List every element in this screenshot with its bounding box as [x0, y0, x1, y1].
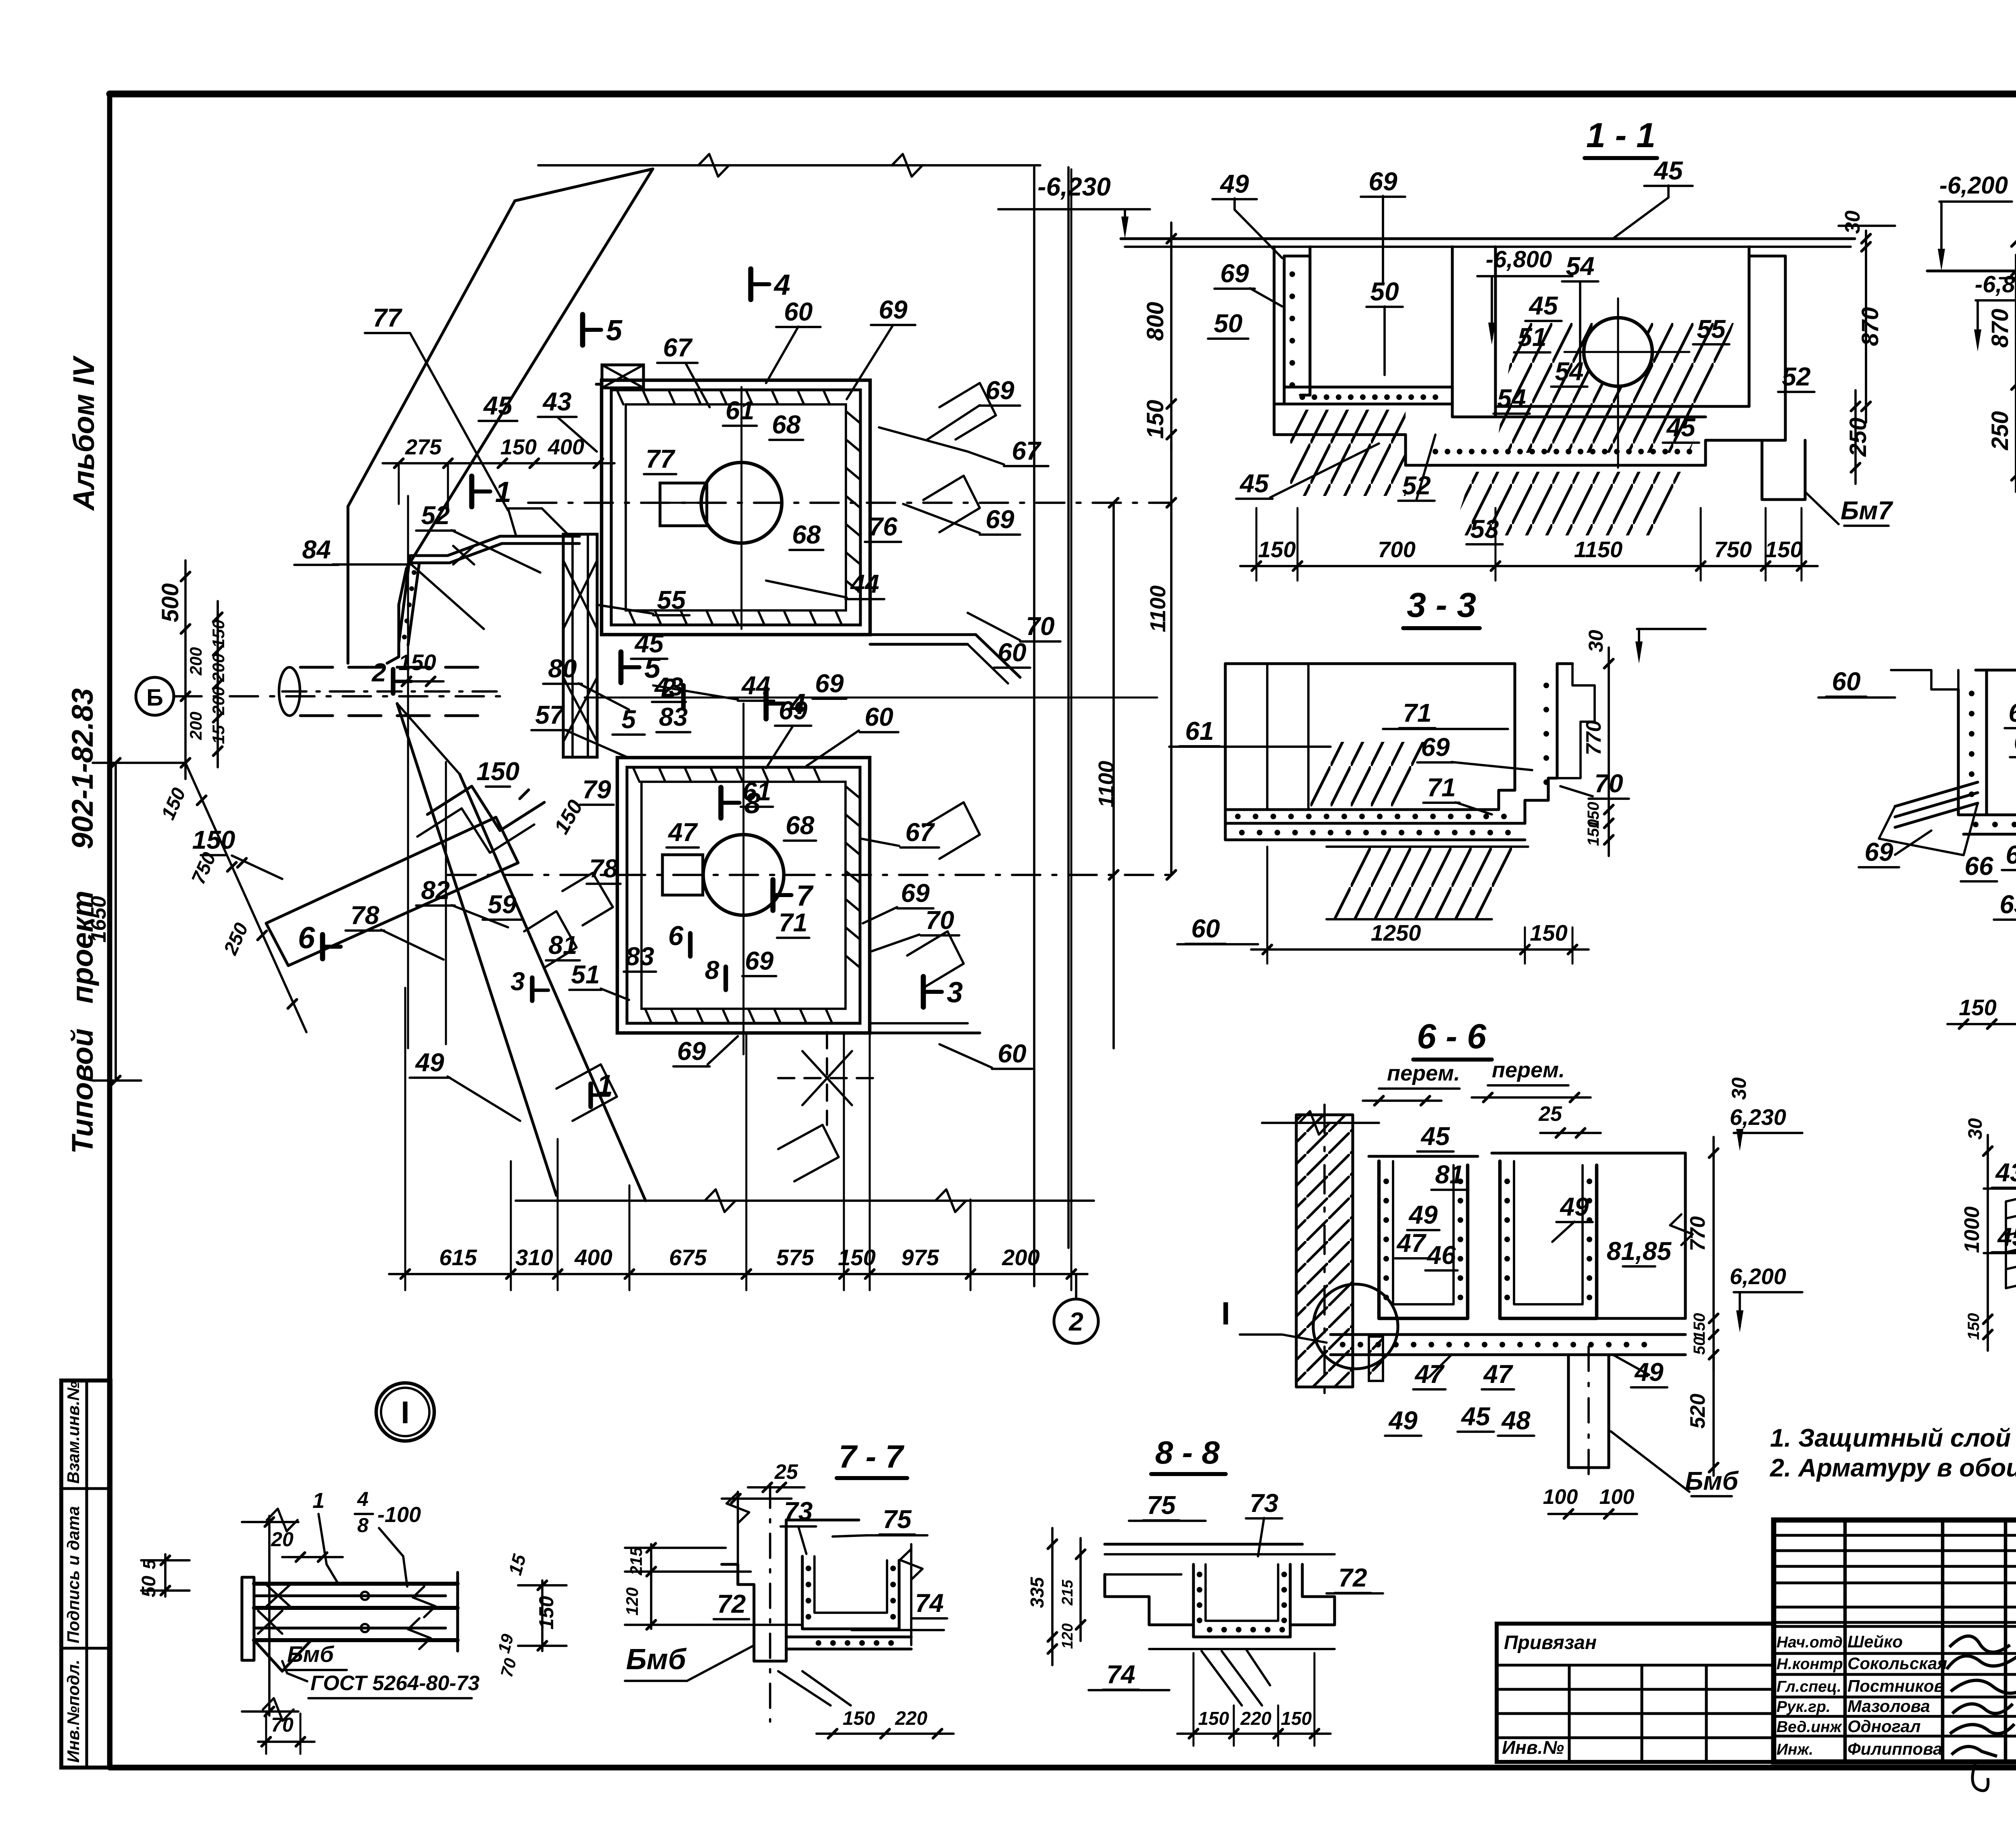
svg-text:1150: 1150 — [1574, 537, 1622, 562]
section 1-1 left wall rebar — [1289, 271, 1295, 277]
svg-text:15: 15 — [504, 1551, 530, 1577]
section 7-7 vertical dashdot — [769, 1484, 771, 1722]
svg-text:150: 150 — [843, 1708, 875, 1729]
plan lower-left dim diagonal — [185, 763, 306, 1032]
svg-text:69: 69 — [901, 879, 930, 908]
section 3-3 right dims — [1608, 648, 1610, 856]
plan lower room circle — [703, 835, 784, 915]
svg-text:30: 30 — [1585, 630, 1607, 652]
svg-text:52: 52 — [1782, 362, 1810, 391]
svg-text:43: 43 — [1995, 1158, 2016, 1187]
plan upper room outer — [602, 380, 870, 635]
svg-text:78: 78 — [589, 854, 618, 883]
svg-text:Инв.№подл.: Инв.№подл. — [64, 1660, 83, 1763]
section 8-8 bottom — [1193, 1635, 1290, 1638]
section 6-6 top ref lines — [1262, 1122, 1379, 1124]
svg-text:61: 61 — [725, 396, 754, 425]
svg-text:60: 60 — [864, 702, 893, 731]
plan pipe left — [300, 666, 480, 668]
section 4-4 left wing hatch — [1895, 782, 1978, 806]
svg-text:520: 520 — [1686, 1394, 1710, 1429]
section 3-3 body — [1225, 664, 1515, 810]
svg-text:47: 47 — [1483, 1360, 1514, 1389]
svg-text:49: 49 — [1634, 1358, 1664, 1387]
svg-text:68: 68 — [792, 520, 821, 549]
svg-text:66: 66 — [1964, 852, 1993, 881]
section 8-8 channel — [1193, 1564, 1290, 1637]
svg-text:45: 45 — [1420, 1122, 1450, 1151]
svg-text:1100: 1100 — [1146, 585, 1170, 632]
plan diagonal walls lower-left — [427, 786, 544, 831]
plan section flags — [583, 314, 601, 345]
detail I rebar lines — [254, 1582, 458, 1586]
section 3-3 bottom slab — [1224, 823, 1227, 840]
svg-text:82: 82 — [421, 876, 450, 905]
title block row lines names area — [1774, 1625, 2016, 1628]
svg-text:71: 71 — [1427, 773, 1456, 802]
svg-text:81,85: 81,85 — [1607, 1237, 1672, 1266]
svg-text:3: 3 — [510, 967, 525, 996]
section 6-6 right body — [1684, 1153, 1687, 1318]
svg-text:6,230: 6,230 — [1730, 1104, 1786, 1130]
svg-text:-6,800: -6,800 — [1486, 246, 1552, 273]
section 6-6 rebar dots — [1383, 1179, 1389, 1184]
svg-text:69: 69 — [1421, 733, 1450, 762]
svg-text:45: 45 — [1460, 1402, 1491, 1431]
svg-text:67: 67 — [1012, 436, 1042, 465]
svg-text:Сокольская: Сокольская — [1847, 1654, 1947, 1673]
svg-text:2: 2 — [371, 658, 386, 687]
svg-text:Инв.№: Инв.№ — [1502, 1737, 1564, 1758]
svg-text:Бм7: Бм7 — [1841, 496, 1894, 525]
svg-text:Бмб: Бмб — [626, 1643, 687, 1676]
svg-text:77: 77 — [373, 303, 403, 332]
svg-text:69: 69 — [1864, 837, 1893, 866]
plan right axis verticals — [1033, 167, 1035, 1286]
svg-text:1. Защитный слой бетона для ра: 1. Защитный слой бетона для рабочей арма… — [1770, 1424, 2016, 1452]
svg-text:73: 73 — [784, 1497, 812, 1526]
svg-text:69: 69 — [879, 295, 908, 324]
svg-text:54: 54 — [1497, 384, 1526, 413]
svg-text:43: 43 — [654, 672, 683, 701]
svg-text:200: 200 — [186, 647, 205, 676]
svg-text:100: 100 — [1543, 1485, 1578, 1509]
svg-text:250: 250 — [1987, 411, 2013, 451]
svg-text:Инж.: Инж. — [1776, 1741, 1813, 1758]
svg-text:500: 500 — [157, 583, 183, 623]
svg-text:20: 20 — [271, 1528, 294, 1551]
section 6-6 detail I circle — [1313, 1284, 1398, 1369]
svg-text:615: 615 — [439, 1245, 477, 1270]
section 8-8 left dims — [1051, 1528, 1054, 1665]
title block left annex (Привязан) — [1497, 1624, 1774, 1762]
svg-text:7 - 7: 7 - 7 — [839, 1439, 905, 1474]
svg-text:Гл.спец.: Гл.спец. — [1776, 1678, 1841, 1695]
svg-text:Мазолова: Мазолова — [1847, 1697, 1930, 1716]
section 4-4 left wall — [1958, 670, 1987, 815]
plan top edge line — [538, 164, 1040, 167]
svg-text:25: 25 — [774, 1460, 798, 1484]
svg-text:150: 150 — [1765, 537, 1802, 562]
section 6-6 top flange lines — [1369, 1155, 1478, 1158]
section 5-5 left dims — [1987, 1135, 1989, 1351]
plan axis 2 circle — [1054, 1299, 1098, 1343]
svg-text:-6,800: -6,800 — [1975, 271, 2016, 298]
svg-text:44: 44 — [850, 569, 879, 598]
plan axis B circle — [136, 677, 174, 715]
svg-text:55: 55 — [657, 585, 686, 614]
svg-text:74: 74 — [915, 1589, 943, 1618]
signatures squiggles — [1947, 1636, 2016, 1756]
svg-text:1100: 1100 — [1094, 761, 1118, 808]
svg-text:77: 77 — [646, 444, 676, 473]
section 1-1 trough floor left — [1274, 387, 1452, 404]
plan upper small steps near top room — [602, 365, 644, 388]
title block outer box — [1774, 1520, 2016, 1762]
svg-text:4: 4 — [357, 1488, 369, 1510]
plan upper room circle — [701, 462, 782, 543]
svg-text:69: 69 — [745, 946, 774, 975]
section 1-1 left wall — [1274, 247, 1310, 404]
svg-text:60: 60 — [998, 638, 1026, 667]
svg-text:120: 120 — [623, 1587, 641, 1616]
svg-text:78: 78 — [350, 901, 379, 930]
svg-text:15: 15 — [209, 725, 228, 744]
svg-text:150: 150 — [550, 796, 587, 838]
svg-text:49: 49 — [414, 1048, 444, 1077]
svg-text:-6,230: -6,230 — [1037, 172, 1110, 201]
svg-text:150: 150 — [1258, 537, 1295, 562]
svg-text:120: 120 — [1059, 1623, 1076, 1649]
svg-text:Вед.инж: Вед.инж — [1776, 1718, 1843, 1736]
section 6-6 channel U left — [1379, 1161, 1468, 1318]
svg-text:1250: 1250 — [1371, 920, 1421, 945]
section 1-1 top slab lines — [1121, 237, 1855, 240]
svg-text:800: 800 — [1142, 302, 1168, 341]
plan left wall bottom bend — [387, 644, 399, 663]
svg-text:150: 150 — [209, 620, 228, 648]
svg-text:1 - 1: 1 - 1 — [1586, 116, 1656, 155]
svg-text:250: 250 — [1845, 418, 1871, 457]
svg-text:83: 83 — [659, 702, 687, 731]
svg-text:59: 59 — [487, 890, 516, 919]
svg-text:6: 6 — [298, 921, 315, 955]
svg-text:770: 770 — [1686, 1216, 1710, 1251]
plan wall X mark — [453, 546, 474, 564]
svg-text:60: 60 — [998, 1039, 1026, 1068]
svg-text:150: 150 — [535, 1596, 558, 1630]
svg-text:19: 19 — [494, 1632, 517, 1655]
svg-text:68: 68 — [772, 410, 801, 439]
plan left lower wedge outline — [397, 704, 556, 1195]
plan upper-left funnel — [508, 507, 542, 510]
svg-text:60: 60 — [784, 297, 812, 326]
svg-text:75: 75 — [883, 1505, 912, 1534]
section 1-1 rebar dots floor — [1300, 394, 1305, 400]
plan axis B dash line — [173, 695, 508, 698]
svg-text:70: 70 — [497, 1656, 520, 1679]
plan small diag details — [562, 873, 613, 925]
section 1-1 right foot — [1762, 440, 1805, 500]
section 1-1 left dims — [1170, 223, 1173, 451]
svg-text:Альбом IV: Альбом IV — [67, 355, 100, 511]
svg-text:68: 68 — [785, 811, 814, 840]
svg-text:69: 69 — [1368, 167, 1397, 196]
svg-text:70: 70 — [271, 1714, 294, 1736]
svg-text:71: 71 — [1403, 698, 1431, 727]
svg-text:8: 8 — [357, 1514, 369, 1537]
plan hatch parallelogram below rooms — [778, 1125, 839, 1181]
plan lower room outer — [617, 758, 870, 1033]
svg-text:30: 30 — [1965, 1118, 1986, 1140]
section 5-5 left wing hatch — [2006, 1185, 2016, 1201]
section 1-1 hatch bottom — [1452, 472, 1690, 535]
svg-text:47: 47 — [1396, 1228, 1427, 1258]
svg-text:45: 45 — [1653, 156, 1683, 185]
svg-text:Привязан: Привязан — [1504, 1632, 1597, 1653]
svg-text:200: 200 — [1002, 1245, 1039, 1270]
svg-text:69: 69 — [815, 669, 844, 698]
plan bottom dimension line — [389, 1273, 1087, 1275]
plan left dim verticals — [184, 560, 187, 779]
svg-text:200: 200 — [186, 712, 205, 740]
svg-text:6: 6 — [668, 920, 684, 951]
svg-text:1: 1 — [312, 1489, 325, 1513]
plan left diagonal wall with dots — [399, 556, 410, 644]
svg-text:61: 61 — [742, 777, 771, 806]
plan dim 1650 — [115, 763, 117, 1081]
svg-text:400: 400 — [574, 1245, 612, 1270]
svg-text:6,200: 6,200 — [1730, 1264, 1786, 1289]
svg-text:50: 50 — [1370, 277, 1399, 306]
svg-text:150: 150 — [1142, 400, 1168, 439]
section 2-2 right dims — [2015, 255, 2016, 492]
svg-text:215: 215 — [1059, 1579, 1076, 1605]
svg-text:46: 46 — [1426, 1241, 1456, 1270]
section 1-1 pipe circle — [1584, 318, 1652, 386]
svg-text:84: 84 — [302, 535, 331, 564]
svg-text:3: 3 — [947, 977, 963, 1009]
svg-text:63: 63 — [1999, 890, 2016, 919]
plan centerline lower room — [448, 874, 1171, 876]
section 3-3 rebar dots — [1235, 814, 1241, 819]
section 8-8 bottom dims — [1177, 1732, 1331, 1735]
section 8-8 right side — [1290, 1564, 1335, 1625]
drawing frame border — [110, 91, 2016, 98]
svg-text:400: 400 — [548, 435, 584, 459]
title block revision grid — [1774, 1534, 2016, 1537]
section 4-4 wall rebar dots — [1969, 691, 1974, 696]
svg-text:60: 60 — [1191, 914, 1220, 943]
svg-text:4: 4 — [773, 269, 790, 301]
svg-text:975: 975 — [901, 1245, 939, 1270]
svg-text:30: 30 — [1728, 1077, 1750, 1100]
svg-text:Бмб: Бмб — [287, 1641, 334, 1667]
section 7-7 rebar — [806, 1566, 811, 1571]
svg-text:6 - 6: 6 - 6 — [1417, 1017, 1487, 1056]
svg-text:220: 220 — [895, 1708, 927, 1729]
svg-text:250: 250 — [220, 920, 253, 958]
plan right step lines lower room — [870, 1022, 968, 1024]
section 1-1 bottom dims — [1240, 565, 1818, 567]
svg-text:200: 200 — [209, 687, 228, 715]
section 2-2 top slab — [1927, 269, 2016, 272]
svg-text:67: 67 — [663, 333, 693, 362]
svg-text:I: I — [401, 1395, 410, 1430]
svg-text:870: 870 — [1987, 309, 2013, 348]
svg-text:8: 8 — [705, 956, 719, 985]
section 3-3 elevation right — [1637, 628, 1706, 630]
svg-text:870: 870 — [1857, 307, 1883, 346]
svg-text:51: 51 — [1518, 323, 1546, 352]
svg-text:310: 310 — [515, 1245, 553, 1270]
svg-text:Подпись и дата: Подпись и дата — [64, 1506, 83, 1643]
svg-text:-6,200: -6,200 — [1939, 172, 2008, 199]
plan slanted strip upper — [348, 201, 515, 506]
plan left vertical axis line — [407, 496, 409, 1048]
section 6-6 channel U right — [1500, 1161, 1597, 1318]
svg-text:100: 100 — [1599, 1485, 1635, 1509]
svg-text:49: 49 — [1388, 1406, 1418, 1435]
svg-text:2. Арматуру в обоих направлени: 2. Арматуру в обоих направлениях принять… — [1770, 1454, 2016, 1482]
svg-text:44: 44 — [741, 671, 770, 700]
section 3-3 slab top — [1225, 662, 1515, 665]
svg-text:83: 83 — [625, 942, 654, 971]
svg-text:72: 72 — [717, 1589, 746, 1618]
svg-text:750: 750 — [1714, 537, 1752, 562]
section 4-4 left ledge — [1891, 670, 1958, 689]
svg-text:Рук.гр.: Рук.гр. — [1776, 1698, 1831, 1716]
section 1-1 hatch left — [1290, 410, 1406, 496]
svg-text:I: I — [1221, 1295, 1230, 1331]
section 3-3 bottom dims — [1251, 948, 1589, 951]
svg-text:150: 150 — [477, 757, 520, 786]
plan upper room stub — [660, 483, 707, 526]
svg-text:76: 76 — [868, 512, 898, 541]
svg-text:73: 73 — [1250, 1489, 1278, 1518]
section 4-4 bottom slab — [1964, 813, 2016, 816]
svg-text:50: 50 — [1691, 1337, 1708, 1355]
svg-text:72: 72 — [1338, 1563, 1367, 1592]
section 6-6 bottom slab — [1351, 1318, 1354, 1335]
svg-text:2: 2 — [1068, 1307, 1083, 1336]
svg-text:67: 67 — [2006, 840, 2016, 869]
svg-text:48: 48 — [1501, 1406, 1531, 1435]
svg-text:57: 57 — [535, 700, 565, 729]
section 4-4 top slab — [1976, 668, 2016, 671]
plan lower room stub — [662, 855, 703, 895]
svg-text:49: 49 — [1559, 1192, 1589, 1221]
svg-text:80: 80 — [548, 654, 577, 683]
svg-text:54: 54 — [1555, 357, 1583, 386]
section 7-7 top ledge — [785, 1520, 787, 1585]
svg-text:69: 69 — [677, 1037, 706, 1066]
svg-text:50: 50 — [138, 1576, 160, 1597]
svg-text:79: 79 — [582, 775, 611, 804]
svg-text:220: 220 — [1240, 1708, 1272, 1729]
plan channel duct 44 — [563, 534, 597, 757]
svg-text:Постников: Постников — [1847, 1676, 1944, 1695]
svg-text:81: 81 — [548, 931, 577, 960]
section 1-1 right dims — [1865, 231, 1867, 423]
plan slant lower continuation — [346, 506, 349, 663]
svg-text:5: 5 — [606, 314, 623, 347]
svg-text:68: 68 — [2014, 727, 2016, 756]
svg-text:150: 150 — [500, 435, 537, 459]
svg-text:61: 61 — [2008, 698, 2016, 727]
section 6-6 drop pier — [1568, 1355, 1609, 1468]
svg-text:Взам.инв.№: Взам.инв.№ — [64, 1381, 83, 1484]
plan upper room wall ticks — [617, 390, 623, 404]
svg-text:Н.контр.: Н.контр. — [1776, 1655, 1847, 1673]
svg-text:7: 7 — [796, 880, 814, 912]
svg-text:150: 150 — [157, 785, 190, 823]
section 7-7 bottom — [786, 1635, 911, 1638]
plan upper-left wall pair — [411, 536, 579, 556]
svg-text:54: 54 — [1566, 252, 1594, 281]
section 6-6 hatch small — [1369, 1337, 1383, 1381]
svg-text:74: 74 — [1106, 1660, 1135, 1689]
svg-text:3 - 3: 3 - 3 — [1407, 586, 1476, 625]
svg-text:45: 45 — [1666, 413, 1696, 442]
svg-text:71: 71 — [779, 908, 807, 937]
svg-text:150: 150 — [1691, 1313, 1708, 1340]
section 7-7 left dims — [650, 1544, 652, 1629]
svg-text:275: 275 — [405, 435, 442, 459]
detail I weld marks — [258, 1611, 282, 1634]
svg-text:675: 675 — [669, 1245, 707, 1270]
section 7-7 channel — [802, 1556, 899, 1629]
svg-text:150: 150 — [192, 825, 235, 854]
svg-text:770: 770 — [1582, 720, 1606, 756]
svg-text:Одногал: Одногал — [1847, 1717, 1921, 1736]
plan lower room wall ticks — [633, 767, 639, 782]
detail I dimension vertical — [268, 1516, 271, 1716]
svg-text:30: 30 — [1841, 210, 1864, 234]
detail I drawing plate — [242, 1577, 254, 1660]
svg-text:75: 75 — [1147, 1491, 1176, 1520]
svg-text:25: 25 — [1538, 1102, 1562, 1126]
section 3-3 hatch below — [1327, 847, 1528, 919]
svg-text:70: 70 — [1026, 612, 1054, 641]
svg-text:55: 55 — [1697, 314, 1726, 344]
plan hatch parallelogram lower room right — [923, 802, 980, 859]
section 1-1 middle pillar — [1452, 247, 1495, 417]
svg-text:47: 47 — [667, 818, 698, 847]
svg-text:69: 69 — [985, 505, 1014, 534]
svg-text:8 - 8: 8 - 8 — [1155, 1435, 1220, 1470]
section 3-3 hatch mid — [1306, 742, 1435, 806]
svg-text:60: 60 — [1832, 667, 1860, 696]
svg-text:61: 61 — [1185, 716, 1214, 745]
plan lower room inner — [627, 767, 860, 1023]
svg-text:70: 70 — [925, 906, 954, 935]
section 8-8 rebar — [1197, 1572, 1202, 1577]
svg-text:150: 150 — [1959, 995, 1996, 1020]
svg-text:215: 215 — [627, 1547, 646, 1576]
svg-text:45: 45 — [634, 629, 664, 658]
detail I circle mark — [376, 1383, 434, 1441]
svg-text:-100: -100 — [377, 1503, 421, 1527]
svg-text:47: 47 — [1414, 1360, 1445, 1389]
section 7-7 bottom dims — [816, 1732, 954, 1735]
section 8-8 left steps — [1105, 1574, 1193, 1625]
svg-text:69: 69 — [779, 696, 808, 725]
plan dims top-left 275 150 400 — [383, 462, 614, 464]
svg-text:перем.: перем. — [1387, 1061, 1460, 1085]
section 8-8 top lines — [1105, 1543, 1302, 1545]
svg-text:51: 51 — [571, 960, 600, 989]
